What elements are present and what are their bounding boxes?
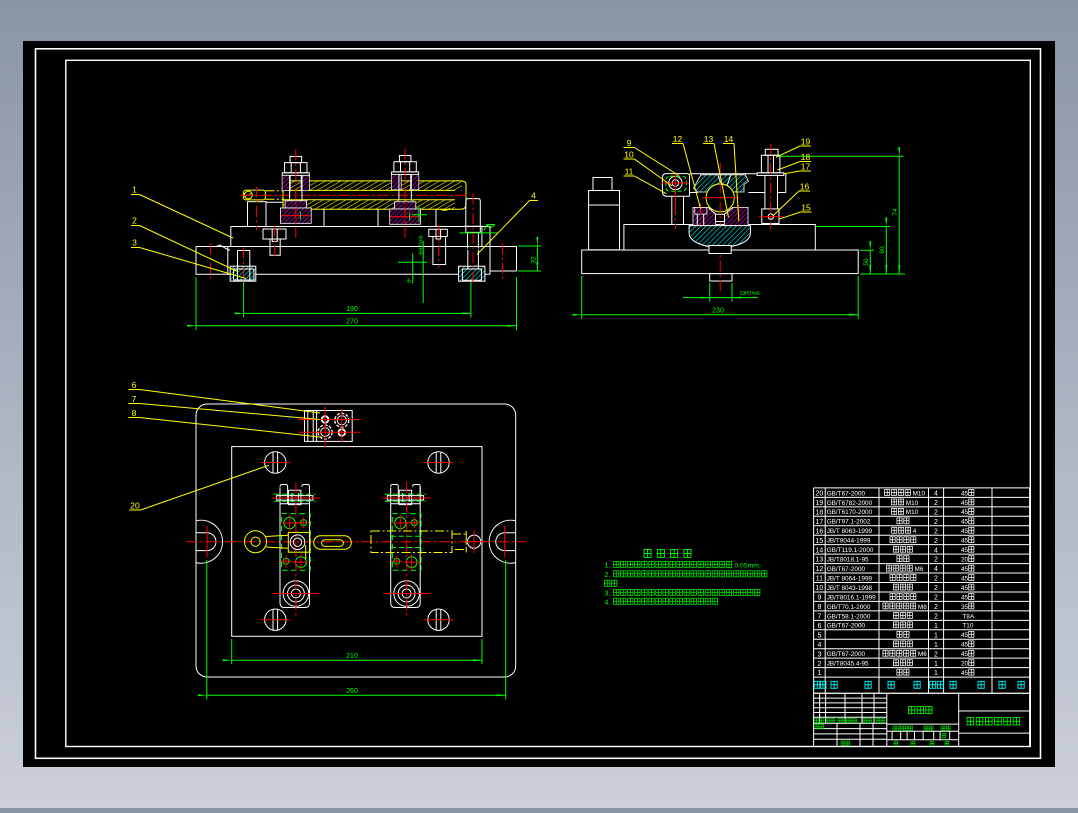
leader 3 [131,248,246,279]
workpiece (yellow circle, V2) [706,184,734,212]
svg-text:JB/T 8063-1999: JB/T 8063-1999 [827,528,873,535]
svg-text:13: 13 [816,557,824,564]
dim 19H7/m6 (V2) [710,283,732,302]
svg-text:M6: M6 [915,566,924,573]
leader 10 [624,159,673,186]
svg-text:190: 190 [346,306,358,313]
svg-text:2: 2 [934,519,938,526]
svg-text:10: 10 [816,585,824,592]
svg-text:18: 18 [801,152,811,162]
right U-slot (V3) [489,520,516,563]
support pin right (V1) [464,199,483,249]
svg-text:GB/T67-2000: GB/T67-2000 [827,623,866,630]
svg-text:1: 1 [132,185,137,195]
svg-text:4.: 4. [605,600,611,607]
tool setting block (V3) [305,411,353,442]
small green dims near right clamp (V1) [412,207,427,304]
svg-text:2: 2 [934,500,938,507]
svg-text:16: 16 [816,528,824,535]
dim 190 (V1) [244,282,471,318]
svg-text:45: 45 [961,566,969,573]
hinged clamp plate (V2) [690,174,786,193]
svg-text:12: 12 [673,134,683,144]
dim 6 (V1) [398,254,427,284]
svg-text:8: 8 [817,604,821,611]
dim 260 (V3) [207,560,506,700]
svg-text:270: 270 [346,319,358,326]
svg-text:T8A: T8A [962,613,974,620]
dim 210 (V3) [232,639,482,664]
base plate top face (V3) [232,447,482,637]
svg-text:6H7/m6: 6H7/m6 [419,235,425,254]
svg-text:JB/T8016.1-1999: JB/T8016.1-1999 [827,594,876,601]
svg-text:M6: M6 [918,651,927,658]
svg-text:18: 18 [816,509,824,516]
leader 19 [776,146,811,157]
svg-text:M10: M10 [913,490,926,497]
svg-text:GB/T58.1-2000: GB/T58.1-2000 [827,613,871,620]
svg-text:4: 4 [934,547,938,554]
svg-text:JB/T8045.4-95: JB/T8045.4-95 [827,661,869,668]
clamp boss left [266,202,324,226]
svg-text:2: 2 [132,216,137,226]
slotted screw left (V1) [263,229,286,255]
svg-text:M10: M10 [906,509,919,516]
left upright (V1) [248,202,267,227]
svg-text:260: 260 [346,688,358,695]
leader 14 [723,144,739,222]
svg-text:45: 45 [961,642,969,649]
svg-text:3: 3 [132,238,137,248]
leader 17 [784,171,811,174]
svg-text:60: 60 [879,246,886,254]
svg-text:JB/T8044-1999: JB/T8044-1999 [827,538,871,545]
leader 2 [131,226,238,272]
dim 50 (V2) [860,250,905,274]
centrelines V1 [295,150,297,239]
svg-text:1: 1 [934,642,938,649]
leader 13 [703,144,729,218]
svg-text:2: 2 [817,661,821,668]
surface finish mark (V1) [459,225,497,233]
svg-text:20: 20 [961,557,969,564]
svg-text:17: 17 [801,162,811,172]
svg-text:2: 2 [934,595,938,602]
V-block screw (V2) [695,207,707,214]
BOM table grid [814,488,1030,693]
svg-text:1: 1 [934,632,938,639]
svg-text:45: 45 [961,500,969,507]
support plate (V1) [231,227,490,247]
dim 230 (V2) [582,276,859,319]
svg-text:9: 9 [627,138,632,148]
clamp nut below (V1) x=405.1 [394,202,415,209]
leader 9 [624,148,679,176]
left T-bolt [234,251,254,281]
handle ring (V3) [245,531,267,553]
svg-text:45: 45 [961,528,969,535]
V-block (magenta hatch, V2) [693,207,716,225]
svg-text:6: 6 [132,380,137,390]
locating boss section (cyan hatch, V2) [689,226,750,248]
svg-text:M10: M10 [906,500,919,507]
clamp nut below (V1) x=295.8 [285,201,306,208]
svg-text:GB/T67-2000: GB/T67-2000 [827,566,866,573]
right T-bolt head [462,250,481,280]
svg-text:45: 45 [961,670,969,677]
svg-text:4: 4 [934,566,938,573]
shaft right end cap (yellow) [450,181,466,209]
slotted screw right (V1) [429,229,448,264]
svg-text:GB/T119.1-2000: GB/T119.1-2000 [827,547,874,554]
shaft centreline [241,194,470,196]
svg-text:45: 45 [961,594,969,601]
svg-text:45: 45 [961,509,969,516]
svg-text:19: 19 [816,500,824,507]
svg-text:2: 2 [934,651,938,658]
svg-text:GB/T67-2000: GB/T67-2000 [827,490,866,497]
svg-text:GB/T70.1-2000: GB/T70.1-2000 [827,604,871,611]
svg-text:17: 17 [816,519,824,526]
svg-text:1: 1 [934,661,938,668]
svg-text:210: 210 [346,653,358,660]
clamp strap (V3) at x=295.9 [280,488,310,608]
svg-text:6: 6 [407,278,411,285]
base plate (V1) [196,245,517,274]
svg-text:74: 74 [892,208,899,216]
svg-text:2: 2 [934,538,938,545]
svg-text:2: 2 [934,528,938,535]
svg-text:JB/T 8043-1998: JB/T 8043-1998 [827,585,873,592]
svg-text:7: 7 [817,614,821,621]
svg-text:T10: T10 [962,623,973,630]
svg-text:45: 45 [961,519,969,526]
locating key (V2) [710,274,732,281]
drill template section (cyan hatch, V2) [694,175,749,192]
svg-text:6: 6 [817,623,821,630]
svg-text:11: 11 [625,167,634,177]
svg-text:1: 1 [817,670,821,677]
svg-text:2: 2 [934,585,938,592]
svg-text:3: 3 [817,651,821,658]
leader 11 [624,176,667,194]
svg-text:14: 14 [724,134,734,144]
left T-nut (cyan) [230,266,256,281]
svg-text:2: 2 [934,509,938,516]
leader 20 [130,465,270,510]
leader 8 [129,418,323,438]
svg-text:2: 2 [934,614,938,621]
slotted screw (V3) at 275.3,462.5 [265,452,286,473]
svg-text:20: 20 [961,661,969,668]
svg-text:45: 45 [961,490,969,497]
tool-setting block column (V2) [589,191,620,250]
dim 74 (V2) [776,155,904,157]
end support pin (V3) [468,535,481,548]
svg-text:13: 13 [704,134,714,144]
slotted screw (V3) at 438.5,462.5 [428,452,449,473]
dim 270 (V1) [196,277,517,330]
leader 18 [778,162,812,171]
left U-slot (V3) [196,520,223,563]
workpiece shaft section (yellow hatch) [283,181,462,191]
svg-text:GB/T6170-2000: GB/T6170-2000 [827,509,873,516]
svg-text:15: 15 [801,203,811,213]
svg-text:7: 7 [132,394,137,404]
hinge bracket left (V2) [662,174,689,225]
svg-text:JB/T 8064-1999: JB/T 8064-1999 [827,575,873,582]
leader 16 [773,191,810,216]
svg-text:8: 8 [132,408,137,418]
right T-nut (cyan) [459,266,485,281]
svg-text:10: 10 [624,150,634,160]
svg-text:50: 50 [863,258,870,266]
leader 4 [477,201,538,255]
slotted screw (V3) at 275.3,619.7 [265,609,286,630]
main centreline (V3) [186,541,526,543]
clamp boss right [378,202,436,226]
leader 6 [129,390,321,414]
svg-text:1: 1 [934,623,938,630]
drawing name (assembly) [909,707,933,714]
svg-text:4: 4 [817,642,821,649]
svg-text:19H7/m6: 19H7/m6 [740,291,761,297]
base plate (V2) [582,250,859,274]
svg-text:45: 45 [961,651,969,658]
svg-text:GB/T97.1-2002: GB/T97.1-2002 [827,519,871,526]
clamp stud assembly at x=405.1 (V1) [399,156,411,162]
leader 1 [131,195,233,239]
leader 15 [779,212,812,219]
fixture body outline (V3) [196,404,516,677]
svg-text:1: 1 [934,670,938,677]
svg-text:230: 230 [712,308,724,315]
svg-text:1.: 1. [605,563,611,570]
svg-text:4: 4 [913,528,917,535]
handle hex in left strap (V3) [288,532,310,552]
svg-text:16: 16 [800,182,810,192]
svg-text:20: 20 [816,491,824,498]
svg-text:45: 45 [961,575,969,582]
svg-text:45: 45 [961,547,969,554]
svg-text:2: 2 [934,557,938,564]
svg-text:GB/T6782-2000: GB/T6782-2000 [827,500,873,507]
svg-text:5: 5 [817,632,821,639]
slotted screw (V3) at 438.5,619.7 [428,609,449,630]
svg-text:14: 14 [816,547,824,554]
yellow ring (handle pivot, V1) [243,190,265,200]
svg-text:11: 11 [816,576,823,583]
small green texts in title block [815,719,824,723]
leader 12 [672,144,701,209]
dim 32 (V1 right) [518,246,541,271]
BOM header row [814,681,826,688]
svg-text:2.: 2. [605,572,611,579]
svg-text:3.: 3. [605,591,611,598]
fixture title [967,718,1020,726]
clamp strap (V3) at x=406.6 [391,488,421,608]
svg-text:2: 2 [934,604,938,611]
svg-text:12: 12 [816,566,824,573]
leader 7 [129,404,321,420]
svg-text:19: 19 [801,137,811,147]
svg-text:M8: M8 [918,604,927,611]
svg-text:15: 15 [816,538,824,545]
clamp stud assembly at x=295.8 (V1) [290,156,302,162]
svg-text:45: 45 [961,632,969,639]
svg-text:32: 32 [531,256,538,264]
technical requirements title [644,550,691,558]
svg-text:JB/T8018.1-95: JB/T8018.1-95 [827,557,869,564]
middle plate (V2) [624,225,815,251]
svg-text:GB/T67-2000: GB/T67-2000 [827,651,866,658]
handle slot link (V3) [314,536,352,550]
svg-text:9: 9 [817,595,821,602]
title block outline [814,693,1030,746]
svg-text:4: 4 [531,191,536,201]
svg-text:45: 45 [961,585,969,592]
svg-text:4: 4 [934,491,938,498]
svg-text:2: 2 [934,576,938,583]
svg-text:0.05mm;: 0.05mm; [734,563,761,570]
svg-text:45: 45 [961,538,969,545]
clamp screw shaft (V3, yellow phantom) [371,531,452,553]
dim 60 (V2) [815,226,890,228]
hinge bolt right (V2) [765,149,778,155]
inner border frame [66,60,1031,746]
svg-text:20: 20 [130,501,140,511]
svg-text:35: 35 [961,604,969,611]
